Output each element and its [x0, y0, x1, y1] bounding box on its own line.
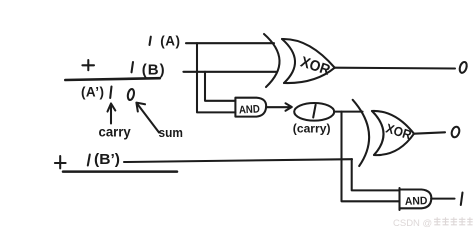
svg-text:(carry): (carry) [293, 122, 331, 136]
svg-text:CSDN @: CSDN @ [393, 218, 432, 229]
svg-text:(A’): (A’) [81, 85, 104, 100]
svg-text:(B’): (B’) [94, 151, 120, 168]
svg-text:(A): (A) [160, 33, 180, 48]
svg-text:(B): (B) [142, 62, 166, 79]
svg-text:sum: sum [159, 125, 183, 140]
svg-text:AND: AND [405, 195, 428, 208]
svg-text:carry: carry [99, 124, 131, 140]
svg-text:AND: AND [239, 103, 261, 116]
